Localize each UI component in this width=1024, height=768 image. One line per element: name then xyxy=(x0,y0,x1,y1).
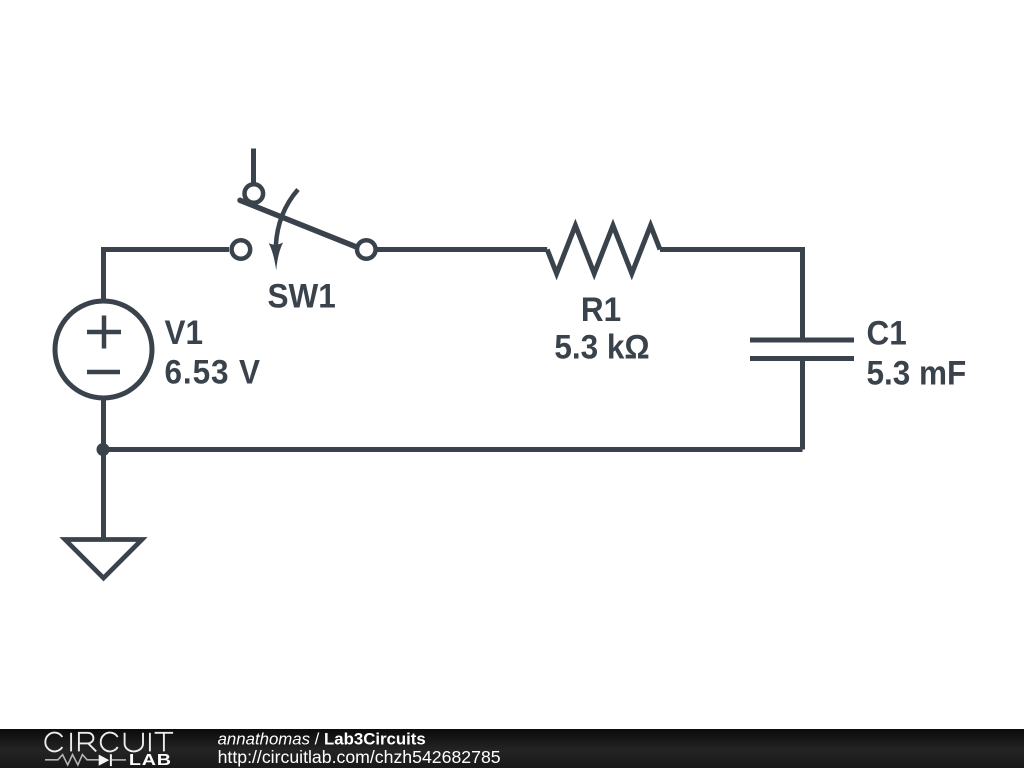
voltage source V1 xyxy=(55,301,152,398)
svg-text:C1: C1 xyxy=(867,314,907,353)
svg-text:5.3 kΩ: 5.3 kΩ xyxy=(554,328,649,367)
svg-text:R1: R1 xyxy=(581,291,621,330)
CircuitLab logo wordmark CIRCUIT xyxy=(45,733,173,752)
svg-text:SW1: SW1 xyxy=(267,277,335,316)
V1 minus sign xyxy=(87,370,120,375)
footer bar xyxy=(0,729,1024,768)
switch SW1 upper pin circle xyxy=(245,184,264,203)
V1 plus sign xyxy=(87,316,121,349)
wire: V1 bottom to ground xyxy=(101,398,106,538)
switch SW1 actuation arc xyxy=(276,190,298,247)
svg-text:6.53 V: 6.53 V xyxy=(165,353,261,392)
svg-text:V1: V1 xyxy=(165,314,204,353)
svg-text:http://circuitlab.com/chzh5426: http://circuitlab.com/chzh542682785 xyxy=(218,747,501,767)
wire: C1 bottom to bottom rail xyxy=(800,359,805,450)
CircuitLab logo LAB xyxy=(129,730,501,768)
switch SW1 blade xyxy=(240,200,359,248)
wire: V1 top to switch left terminal xyxy=(104,250,230,302)
CircuitLab logo diode triangle xyxy=(99,755,110,766)
capacitor C1 xyxy=(750,340,854,359)
switch SW1 arrowhead xyxy=(269,243,283,271)
resistor R1 xyxy=(547,226,660,274)
svg-text:LAB: LAB xyxy=(129,751,172,768)
wire: resistor R1 right lead to top of C1 xyxy=(660,250,803,341)
CircuitLab logo resistor-diode glyph xyxy=(45,754,126,766)
wire: switch right terminal to resistor R1 left lead xyxy=(378,247,548,252)
switch SW1 left terminal circle xyxy=(232,240,251,259)
svg-text:annathomas / Lab3Circuits: annathomas / Lab3Circuits xyxy=(218,730,426,749)
wire: bottom rail xyxy=(104,447,803,452)
svg-text:5.3 mF: 5.3 mF xyxy=(867,354,967,393)
switch SW1 top stub wire xyxy=(251,149,256,185)
ground xyxy=(65,540,142,579)
node: V1 bottom junction xyxy=(97,443,110,456)
switch SW1 right terminal circle xyxy=(357,240,376,259)
